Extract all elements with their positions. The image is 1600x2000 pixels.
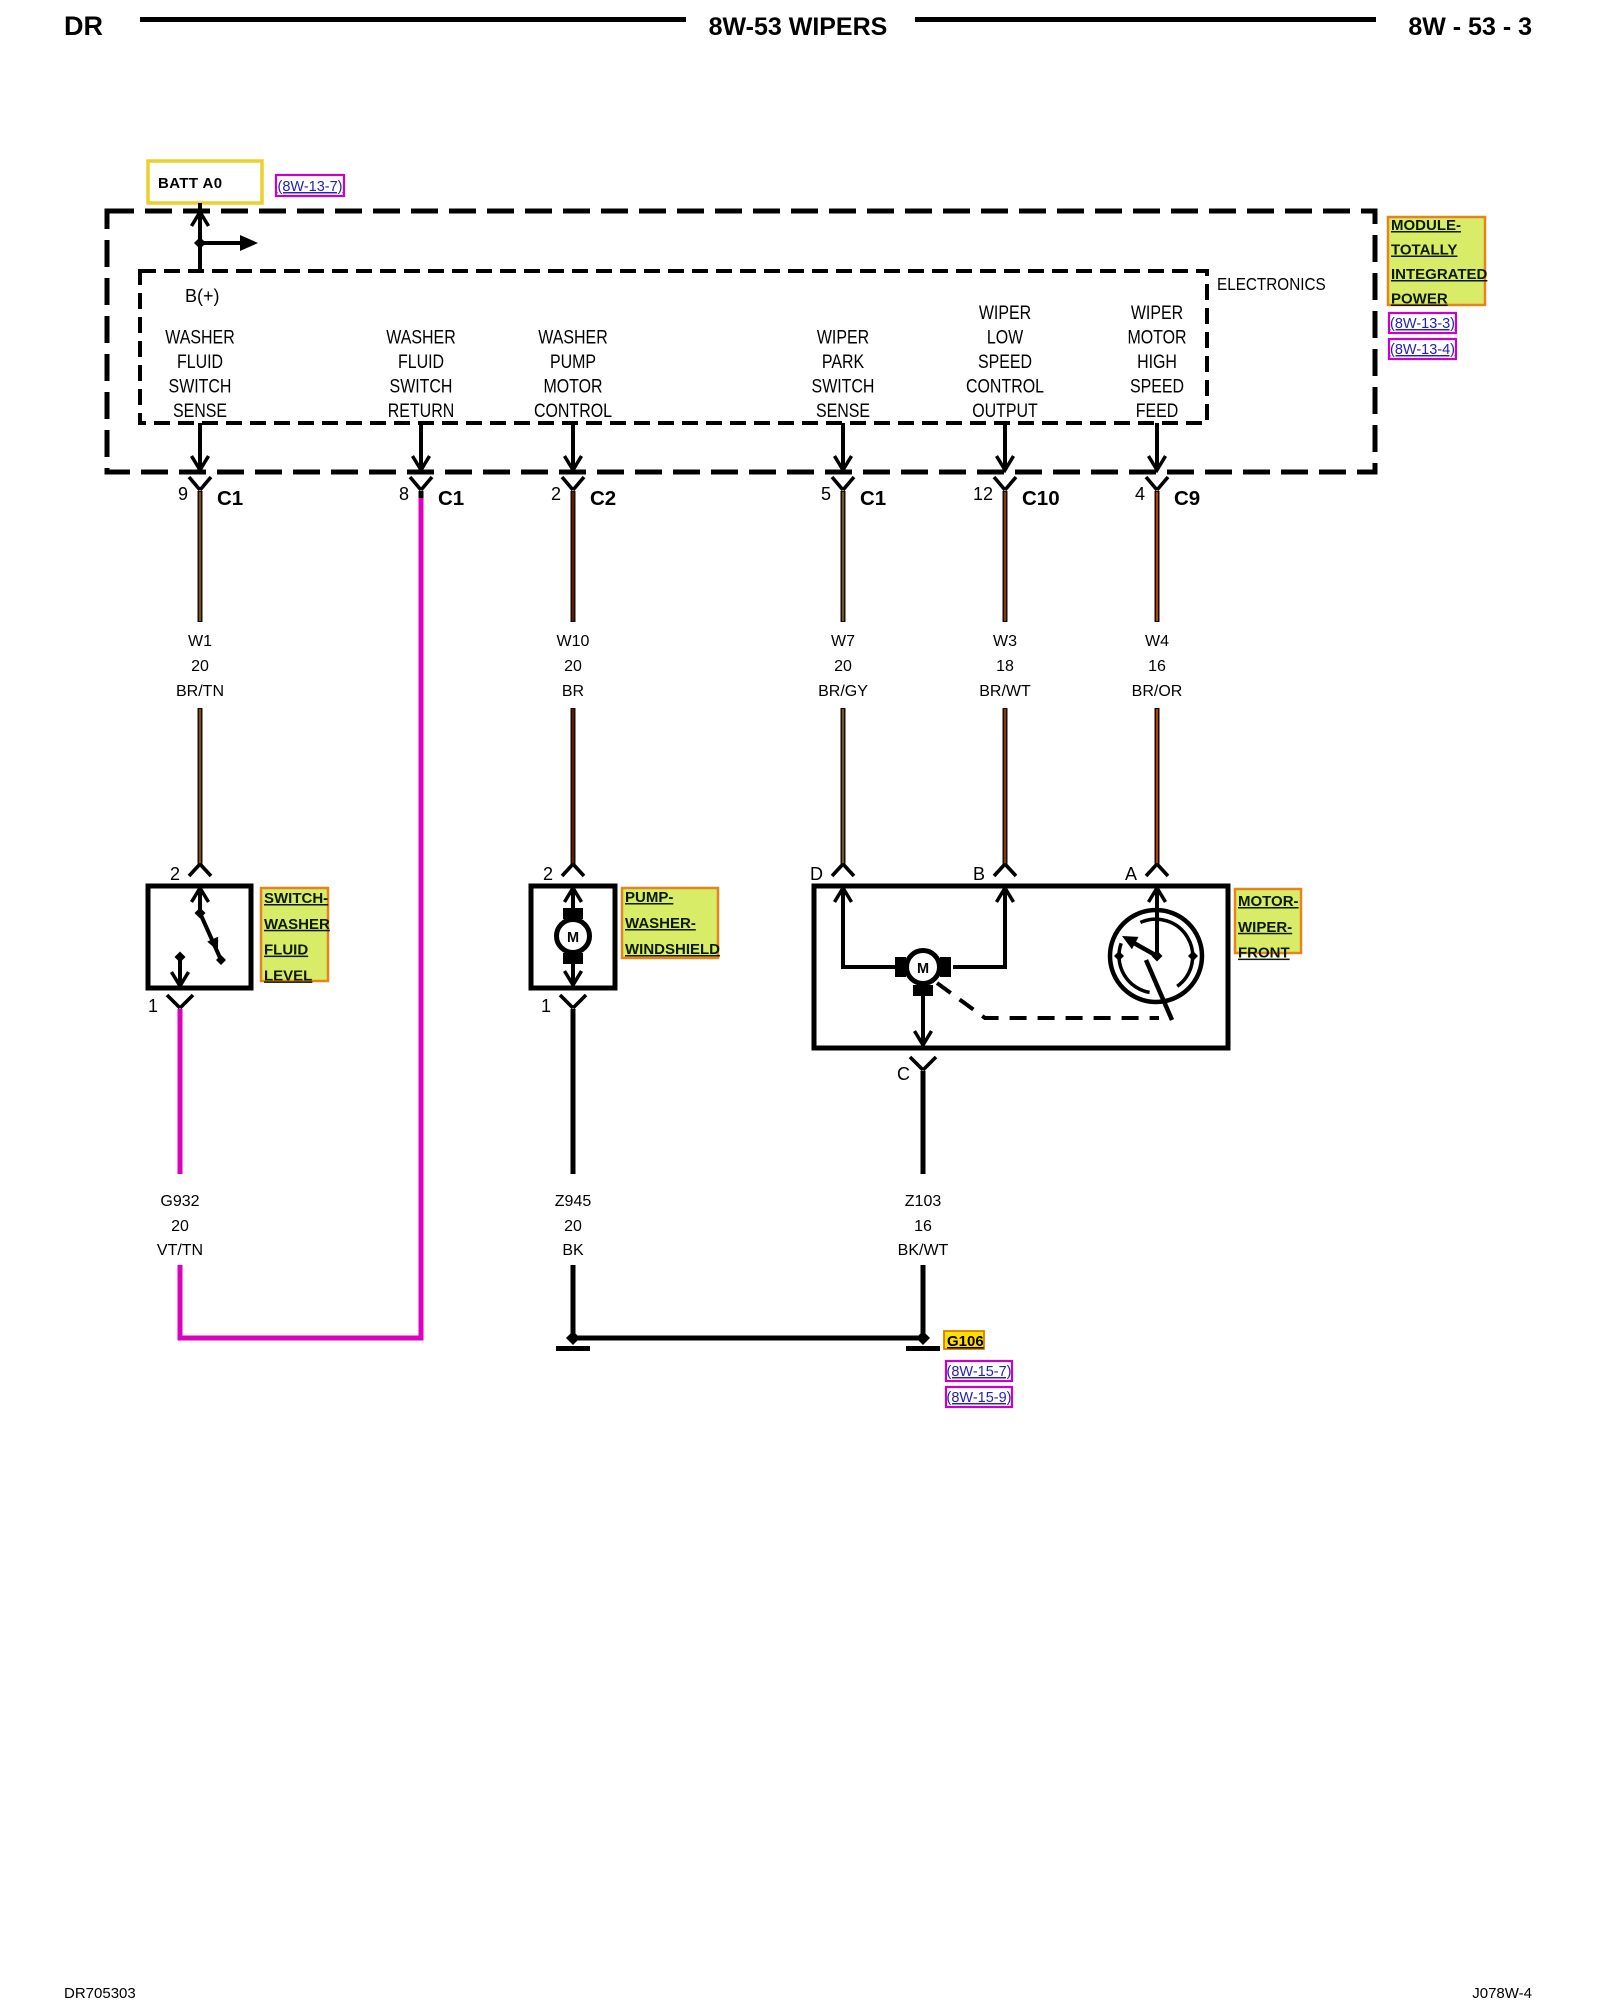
svg-text:INTEGRATED: INTEGRATED (1391, 266, 1488, 283)
svg-text:16: 16 (914, 1218, 932, 1235)
svg-text:20: 20 (834, 658, 852, 675)
svg-text:M: M (567, 930, 579, 946)
svg-text:8W - 53 - 3: 8W - 53 - 3 (1408, 13, 1532, 41)
svg-text:(8W-15-9): (8W-15-9) (947, 1390, 1012, 1406)
svg-text:8W-53 WIPERS: 8W-53 WIPERS (709, 13, 888, 41)
svg-text:MOTOR: MOTOR (1127, 326, 1186, 348)
svg-text:MOTOR: MOTOR (543, 375, 602, 397)
svg-text:DR: DR (64, 11, 103, 41)
svg-text:4: 4 (1135, 484, 1145, 504)
svg-text:C1: C1 (860, 487, 886, 510)
svg-text:SWITCH: SWITCH (169, 375, 232, 397)
svg-text:SENSE: SENSE (173, 400, 227, 422)
svg-text:BK: BK (562, 1242, 584, 1259)
svg-text:WASHER: WASHER (386, 326, 455, 348)
svg-text:MODULE-: MODULE- (1391, 217, 1461, 234)
svg-text:20: 20 (191, 658, 209, 675)
svg-text:WIPER: WIPER (979, 302, 1031, 324)
svg-text:D: D (810, 864, 823, 884)
svg-text:SWITCH: SWITCH (390, 375, 453, 397)
svg-text:B: B (973, 864, 985, 884)
svg-text:W10: W10 (557, 633, 590, 650)
svg-text:OUTPUT: OUTPUT (972, 400, 1038, 422)
svg-text:HIGH: HIGH (1137, 351, 1177, 373)
svg-text:20: 20 (564, 1218, 582, 1235)
svg-text:WIPER-: WIPER- (1238, 919, 1292, 936)
svg-text:A: A (1125, 864, 1137, 884)
svg-text:(8W-13-7): (8W-13-7) (278, 179, 343, 195)
svg-text:(8W-13-3): (8W-13-3) (1390, 316, 1455, 332)
svg-text:M: M (917, 961, 929, 977)
svg-text:SPEED: SPEED (978, 351, 1032, 373)
svg-text:(8W-13-4): (8W-13-4) (1390, 342, 1455, 358)
svg-text:2: 2 (551, 484, 561, 504)
svg-text:FRONT: FRONT (1238, 945, 1290, 962)
svg-text:WASHER: WASHER (165, 326, 234, 348)
svg-text:WASHER: WASHER (264, 916, 330, 933)
svg-text:W3: W3 (993, 633, 1017, 650)
svg-text:W1: W1 (188, 633, 212, 650)
svg-text:BR/OR: BR/OR (1132, 683, 1183, 700)
svg-text:PUMP-: PUMP- (625, 889, 673, 906)
svg-text:W4: W4 (1145, 633, 1169, 650)
svg-text:BATT A0: BATT A0 (158, 175, 222, 192)
svg-text:SWITCH: SWITCH (812, 375, 875, 397)
svg-text:SWITCH-: SWITCH- (264, 890, 328, 907)
svg-text:1: 1 (148, 996, 158, 1016)
svg-text:C2: C2 (590, 487, 616, 510)
svg-text:SENSE: SENSE (816, 400, 870, 422)
svg-text:Z945: Z945 (555, 1193, 592, 1210)
svg-text:18: 18 (996, 658, 1014, 675)
svg-text:8: 8 (399, 484, 409, 504)
svg-text:LEVEL: LEVEL (264, 967, 312, 984)
svg-text:MOTOR-: MOTOR- (1238, 893, 1299, 910)
svg-text:C10: C10 (1022, 487, 1060, 510)
svg-text:J078W-4: J078W-4 (1472, 1985, 1532, 2000)
svg-text:LOW: LOW (987, 326, 1024, 348)
svg-text:16: 16 (1148, 658, 1166, 675)
svg-text:VT/TN: VT/TN (157, 1242, 203, 1259)
svg-text:BK/WT: BK/WT (898, 1242, 949, 1259)
svg-text:5: 5 (821, 484, 831, 504)
svg-text:C1: C1 (438, 487, 464, 510)
svg-text:B(+): B(+) (185, 286, 220, 306)
svg-text:2: 2 (170, 864, 180, 884)
svg-text:12: 12 (973, 484, 993, 504)
svg-text:WASHER: WASHER (538, 326, 607, 348)
svg-text:C9: C9 (1174, 487, 1200, 510)
svg-text:FLUID: FLUID (177, 351, 223, 373)
svg-text:BR: BR (562, 683, 584, 700)
svg-text:PARK: PARK (822, 351, 865, 373)
svg-text:C: C (897, 1064, 910, 1084)
svg-text:G932: G932 (160, 1193, 199, 1210)
svg-text:DR705303: DR705303 (64, 1985, 136, 2000)
svg-text:WIPER: WIPER (1131, 302, 1183, 324)
svg-text:ELECTRONICS: ELECTRONICS (1217, 274, 1326, 294)
svg-text:20: 20 (171, 1218, 189, 1235)
svg-text:C1: C1 (217, 487, 243, 510)
svg-text:G106: G106 (947, 1333, 984, 1350)
svg-text:1: 1 (541, 996, 551, 1016)
svg-text:RETURN: RETURN (388, 400, 454, 422)
svg-text:BR/GY: BR/GY (818, 683, 868, 700)
svg-text:(8W-15-7): (8W-15-7) (947, 1364, 1012, 1380)
svg-text:BR/WT: BR/WT (979, 683, 1031, 700)
svg-text:FEED: FEED (1136, 400, 1179, 422)
svg-text:WINDSHIELD: WINDSHIELD (625, 941, 720, 958)
svg-text:FLUID: FLUID (398, 351, 444, 373)
svg-text:CONTROL: CONTROL (534, 400, 612, 422)
svg-text:POWER: POWER (1391, 291, 1448, 308)
svg-text:9: 9 (178, 484, 188, 504)
svg-text:2: 2 (543, 864, 553, 884)
svg-text:TOTALLY: TOTALLY (1391, 242, 1457, 259)
svg-text:WIPER: WIPER (817, 326, 869, 348)
svg-text:CONTROL: CONTROL (966, 375, 1044, 397)
svg-text:W7: W7 (831, 633, 855, 650)
svg-text:WASHER-: WASHER- (625, 915, 696, 932)
svg-text:20: 20 (564, 658, 582, 675)
svg-text:PUMP: PUMP (550, 351, 596, 373)
svg-text:Z103: Z103 (905, 1193, 942, 1210)
svg-text:SPEED: SPEED (1130, 375, 1184, 397)
svg-text:FLUID: FLUID (264, 942, 308, 959)
svg-text:BR/TN: BR/TN (176, 683, 224, 700)
